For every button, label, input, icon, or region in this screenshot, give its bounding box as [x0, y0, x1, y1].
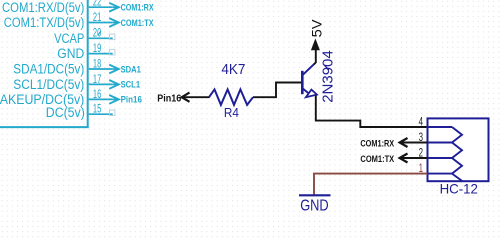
- pin 20 VCAP: [54, 28, 113, 46]
- node Pin16 port label: [157, 92, 189, 104]
- pin 15 DC(5v): [46, 104, 113, 120]
- svg-text:GND: GND: [300, 197, 329, 214]
- svg-text:18: 18: [93, 58, 101, 70]
- pin 16 AKEUP/DC(5v): [0, 89, 113, 107]
- pin 18 SDA1/DC(5v): [13, 58, 112, 76]
- pin 21 COM1:TX/D(5v): [4, 12, 113, 30]
- HC-12 pin contacts: [428, 127, 463, 181]
- net arrow COM1:RX at pin 22: [109, 3, 153, 13]
- svg-text:COM1:TX: COM1:TX: [360, 154, 394, 165]
- svg-text:SCL1/DC(5v): SCL1/DC(5v): [13, 77, 84, 92]
- power 5V arrow: [311, 38, 320, 50]
- svg-text:2N3904: 2N3904: [320, 50, 337, 103]
- node COM1:RX port at pin 3: [360, 138, 407, 150]
- transistor Q1 2N3904: [302, 64, 317, 97]
- unconnected marker pin 15: [109, 110, 115, 116]
- net arrow COM1:TX at pin 21: [109, 18, 153, 28]
- svg-text:VCAP: VCAP: [54, 31, 84, 46]
- slashed zero of 2N3904: [324, 65, 329, 70]
- wire Q1 emitter to HC-12 pin 4: [316, 96, 428, 128]
- svg-text:15: 15: [93, 104, 101, 116]
- svg-text:R4: R4: [224, 105, 239, 120]
- pin 17 SCL1/DC(5v): [13, 74, 112, 92]
- svg-text:17: 17: [93, 74, 101, 86]
- net arrow SCL1 at pin 17: [109, 80, 140, 90]
- svg-text:COM1:RX: COM1:RX: [121, 3, 154, 13]
- svg-text:HC-12: HC-12: [440, 181, 478, 196]
- svg-text:SDA1/DC(5v): SDA1/DC(5v): [13, 62, 84, 77]
- svg-text:COM1:RX: COM1:RX: [360, 139, 394, 150]
- net arrow SDA1 at pin 18: [109, 64, 141, 74]
- slashed zero of pin number 20: [98, 31, 101, 35]
- node COM1:TX port at pin 2: [360, 154, 407, 166]
- pin 19 GND: [57, 43, 112, 61]
- IC U1 (partial, cut at left): [0, 0, 89, 127]
- svg-text:22: 22: [93, 0, 101, 9]
- svg-text:20: 20: [93, 28, 101, 40]
- net arrow Pin16 at pin 16: [109, 95, 142, 105]
- wire COM1:RX to HC-12 pin 3: [400, 142, 428, 144]
- wire COM1:TX to HC-12 pin 2: [400, 157, 428, 159]
- svg-text:DC(5v): DC(5v): [46, 105, 85, 120]
- ground GND symbol: [299, 195, 331, 214]
- connector HC-12 body: [428, 118, 489, 181]
- svg-text:SDA1: SDA1: [121, 64, 141, 74]
- wire R4 to Q1 base: [253, 83, 301, 98]
- svg-text:16: 16: [93, 89, 101, 101]
- wire HC-12 pin 1 to GND: [314, 174, 428, 195]
- svg-text:5V: 5V: [309, 19, 324, 37]
- wire Q1 collector to 5V: [314, 49, 316, 64]
- unconnected marker pin 20: [109, 34, 115, 40]
- svg-text:21: 21: [93, 12, 101, 24]
- resistor R4: [209, 89, 253, 105]
- unconnected marker pin 19: [109, 49, 115, 55]
- svg-text:COM1:RX/D(5v): COM1:RX/D(5v): [2, 0, 84, 15]
- svg-text:4K7: 4K7: [221, 61, 245, 78]
- svg-text:COM1:TX: COM1:TX: [121, 18, 154, 28]
- svg-text:COM1:TX/D(5v): COM1:TX/D(5v): [4, 15, 85, 30]
- svg-text:Pin16: Pin16: [121, 95, 142, 105]
- pin 22 COM1:RX/D(5v): [2, 0, 113, 15]
- svg-text:4: 4: [419, 117, 424, 129]
- svg-text:Pin16: Pin16: [157, 92, 181, 104]
- svg-text:19: 19: [93, 43, 101, 55]
- wire Pin16 to R4: [182, 96, 210, 98]
- svg-text:SCL1: SCL1: [121, 80, 141, 90]
- svg-text:GND: GND: [57, 46, 84, 61]
